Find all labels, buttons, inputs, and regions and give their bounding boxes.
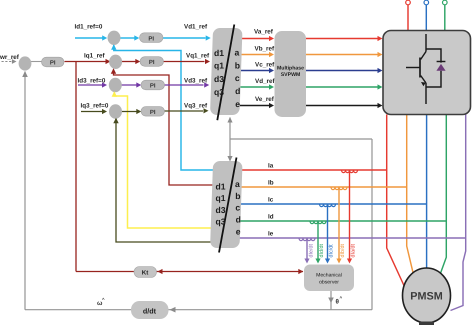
summing junction: row1 [108,31,121,45]
wire: wr_ref dashed input [2,61,13,63]
svg-text:Va_ref: Va_ref [254,29,274,36]
wire: inverter phase A down to PMSM (red) [387,115,406,290]
wire: inverter phase E down to PMSM (purple) [451,115,466,311]
wire: row1 PI1 to dq block Vd1_ref (cyan) [163,37,206,39]
svg-text:Id3_ref=0: Id3_ref=0 [78,78,106,85]
svg-text:d1: d1 [214,48,224,58]
svg-text:dIc/dt: dIc/dt [329,244,335,258]
wire: Vd_ref green row [240,86,270,88]
svg-text:Vc_ref: Vc_ref [255,62,275,69]
dc terminal blue [424,0,429,5]
block: PI4 [141,107,165,117]
svg-text:Ve_ref: Ve_ref [255,96,275,103]
svg-text:PI: PI [148,35,154,42]
wire: dIc/dt tap (blue) [327,204,329,259]
svg-text:dIa/dt: dIa/dt [351,244,357,258]
wire: row4 junction to PI4 (dark olive) [122,111,139,113]
wire: row3 junction to PI3 (purple) [122,84,139,86]
svg-text:c: c [235,203,240,213]
svg-text:Id1_ref=0: Id1_ref=0 [75,24,103,31]
svg-text:b: b [235,191,240,201]
svg-text:d3: d3 [214,74,224,84]
arrowhead: olive feedback into junction4 [113,118,118,124]
wire: Iq3 current feedback (dark olive) [116,119,213,242]
wire: Ie current line (purple) [239,237,466,239]
arrowhead: theta into upper block bottom [227,117,232,123]
block: mechanical observer [304,265,354,292]
svg-text:c: c [235,73,240,83]
svg-text:Id: Id [268,214,274,221]
svg-text:^: ^ [340,296,343,301]
wire: inverter phase D down to PMSM (green) [440,115,447,276]
block: dq->abcde transform (upper) [210,28,243,115]
svg-text:PI: PI [150,109,156,116]
wire: Iq1 current feedback (dark red) [114,70,214,186]
arrowhead: yellow feedback into junction3 [112,91,117,97]
svg-text:q3: q3 [214,87,224,97]
sensor: coil on Ie [299,238,315,241]
wire: Id1 current feedback (cyan) [114,45,214,170]
svg-text:PI: PI [50,60,56,67]
arrowhead: into Kt right side [158,269,163,274]
svg-text:d/dt: d/dt [143,307,157,316]
dc terminal red [406,0,411,5]
svg-text:Iq3_ref=0: Iq3_ref=0 [81,103,109,110]
svg-text:Ic: Ic [268,197,274,204]
svg-text:observer: observer [319,280,339,286]
wire: theta-hat drop from observer [330,291,332,310]
wire: row2 junction to PI2 (dark red) [122,61,137,63]
wire: Vb_ref orange row [241,54,270,56]
svg-text:q1: q1 [216,193,226,203]
svg-text:d3: d3 [216,205,226,215]
wire: Id current line (green) [239,220,447,222]
svg-text:d1: d1 [216,182,226,192]
svg-text:Ie: Ie [268,231,274,238]
wire: Vc_ref navy row [240,70,270,72]
svg-text:^: ^ [102,297,105,302]
svg-text:Vb_ref: Vb_ref [255,46,276,53]
wire: dIe/dt tap (purple) [306,238,308,259]
block: Kt gain [134,267,157,278]
block: PMSM motor [403,268,451,323]
svg-text:dId/dt: dId/dt [319,244,325,258]
svg-text:q1: q1 [214,61,224,71]
summing junction: row3 [109,78,122,92]
summing junction: speed [19,56,32,70]
svg-text:Iq1_ref: Iq1_ref [84,53,106,60]
svg-text:b: b [235,60,240,70]
svg-text:PI: PI [150,83,156,90]
wire: row4 Iq3 input (dark olive) [81,111,104,113]
svg-text:Vd_ref: Vd_ref [255,78,276,85]
block: inverter [383,31,471,115]
block: Multiphase SVPWM [275,31,307,117]
svg-text:d: d [235,86,240,96]
svg-text:Ia: Ia [268,163,274,170]
svg-text:e: e [235,99,240,109]
block: d/dt [131,301,169,319]
transistor IGBT inside inverter [406,34,441,104]
svg-text:a: a [235,179,240,189]
wire: dId/dt tap (green) [317,221,319,259]
svg-text:a: a [235,48,240,58]
svg-text:d: d [236,215,241,225]
dc terminal green [443,0,448,5]
wire: inverter phase B down to PMSM (orange) [407,115,414,275]
wire: row1 Id1 input (cyan) [75,37,104,39]
wire: row4 PI4 to dq block Vq3_ref (dark olive) [165,110,204,112]
svg-text:Vq3_ref: Vq3_ref [184,103,208,110]
wire: row3 Id3 input (purple) [78,84,104,86]
svg-text:Vd1_ref: Vd1_ref [184,24,208,31]
wire: row1 junction to PI1 (cyan) [120,37,136,39]
sensor: coil on Ib [331,187,347,190]
sensor: coil on Ic [320,204,336,207]
arrowhead: into d/dt right side [170,307,176,313]
arrowhead: speed feedback up into summing junction [22,71,28,77]
wire: Ic current line (blue) [239,203,427,205]
slash of upper transform block [217,25,234,121]
block: abcde->dq transform (lower) [210,161,243,248]
arrowhead: dark red feedback into junction2 [111,68,116,74]
wire: theta feedback vertical between transform blocks [229,118,231,161]
svg-text:Ib: Ib [268,180,274,187]
svg-text:SVPWM: SVPWM [281,72,301,78]
svg-text:PI: PI [149,59,155,66]
arrowhead: cyan feedback into junction1 [111,44,116,50]
motor shaft stub [419,322,434,325]
svg-text:Vd3_ref: Vd3_ref [184,78,208,85]
svg-text:dIb/dt: dIb/dt [340,244,346,258]
svg-text:Vq1_ref: Vq1_ref [186,53,210,60]
wire: inverter phase C down to PMSM (blue) [426,115,428,269]
svg-text:Mechanical: Mechanical [316,273,342,279]
svg-text:q3: q3 [216,217,226,227]
wire: speed row (gray then dark red) [31,61,42,63]
arrowhead+label: theta-hat [328,298,334,304]
wire: Va_ref red row [241,38,270,40]
wire: Id3 current feedback (yellow) [114,92,213,228]
svg-text:PMSM: PMSM [410,291,442,303]
wire: Ve_ref black row [239,105,270,107]
arrowhead: torque into observer [298,269,303,274]
diode inside inverter [437,61,446,63]
svg-text:e: e [236,227,241,237]
arrowhead: theta into lower block top [227,156,232,162]
sensor: coil on Id [310,221,326,224]
wire: row2 PI2 to dq block Vq1_ref (dark red) [164,61,205,63]
wire: Ia current line (red) [239,169,387,171]
block: PI1 [140,33,164,43]
svg-text:wr_ref: wr_ref [0,54,20,61]
wire: dIa/dt tap (red) [349,170,351,259]
svg-text:Multiphase: Multiphase [277,66,304,72]
wire: Ib current line (orange) [239,186,407,188]
block: PI3 [141,80,165,90]
wire: row3 PI3 to dq block Vd3_ref (purple) [165,84,204,86]
block: PI2 [140,57,164,67]
slash of lower transform block [219,158,237,253]
wire: dIb/dt tap (orange) [338,187,340,259]
wire: Kt / torque line (dark red) [76,62,303,272]
wire: speed feedback bottom rail (gray) [25,72,372,310]
block: speed PI [42,57,65,67]
svg-text:Kt: Kt [142,270,149,277]
summing junction: row4 [109,104,122,118]
sensor: coil on Ia [342,170,358,173]
summing junction: row2 [109,55,122,69]
svg-text:dIe/dt: dIe/dt [308,244,314,258]
